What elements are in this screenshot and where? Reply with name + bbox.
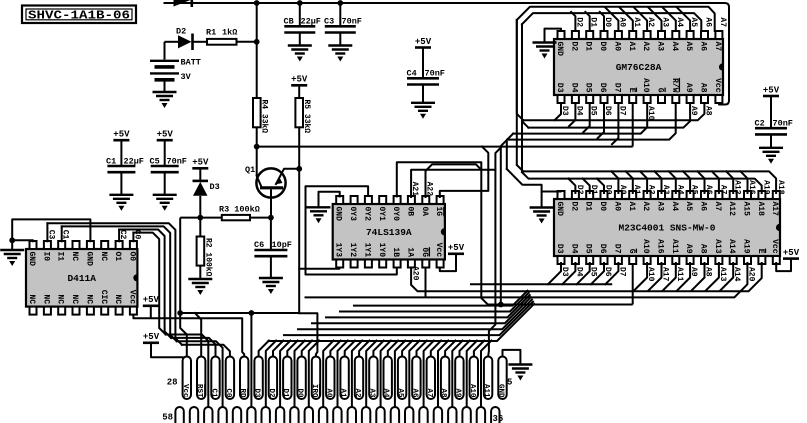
svg-text:NC: NC	[99, 252, 108, 262]
wire 139 0Y0 to rom G line	[397, 162, 488, 304]
svg-text:0Y1: 0Y1	[377, 207, 386, 222]
svg-text:NC: NC	[41, 294, 50, 304]
svg-text:R/W: R/W	[670, 78, 679, 93]
svg-text:A9: A9	[453, 388, 461, 398]
svg-text:A19: A19	[761, 180, 770, 195]
svg-text:A2: A2	[353, 388, 361, 398]
svg-text:+5V: +5V	[448, 243, 465, 253]
wire trunk vertical from A10 line	[507, 134, 513, 169]
node R4-base junction	[254, 144, 260, 150]
svg-text:A3: A3	[656, 202, 665, 212]
svg-text:+5V: +5V	[415, 37, 432, 47]
svg-text:D6: D6	[598, 83, 607, 93]
svg-text:3V: 3V	[181, 72, 192, 82]
wire rom data bus line	[470, 283, 612, 285]
svg-text:A18: A18	[776, 180, 785, 195]
svg-text:A9: A9	[684, 244, 693, 254]
svg-text:0G: 0G	[420, 247, 429, 257]
svg-text:0B: 0B	[405, 207, 414, 217]
svg-text:E: E	[756, 249, 765, 254]
svg-text:A8: A8	[699, 83, 708, 93]
svg-text:A8: A8	[699, 244, 708, 254]
svg-text:A10: A10	[641, 239, 650, 254]
svg-text:28: 28	[167, 378, 178, 388]
svg-text:C6: C6	[254, 240, 264, 250]
wire reset line to IRQ pad	[299, 313, 317, 356]
svg-text:D3: D3	[555, 244, 564, 254]
svg-text:A18: A18	[756, 202, 765, 217]
ground rom GND pin	[542, 191, 561, 208]
svg-text:IRQ: IRQ	[310, 384, 318, 398]
svg-text:R1: R1	[206, 28, 216, 38]
svg-text:NC: NC	[70, 252, 79, 262]
ground C1	[109, 194, 133, 196]
wire 139 0A input A22	[426, 164, 482, 197]
svg-text:A9: A9	[684, 83, 693, 93]
svg-text:D3: D3	[210, 182, 220, 192]
ground C2	[759, 147, 783, 149]
wire rom G enable riser	[632, 264, 634, 305]
wire sram left bus vertical A7	[517, 20, 524, 120]
svg-text:M23C4001 SNS-MW-0: M23C4001 SNS-MW-0	[619, 223, 716, 234]
wire cic data lines to connector	[46, 223, 48, 241]
svg-text:0Y3: 0Y3	[348, 207, 357, 222]
svg-text:D6: D6	[598, 244, 607, 254]
svg-text:1Y3: 1Y3	[334, 243, 343, 258]
svg-text:D4: D4	[569, 244, 578, 254]
wire cic GND2 to rail	[12, 219, 90, 241]
svg-text:Vcc: Vcc	[434, 243, 443, 258]
wire connector bus fan	[259, 341, 269, 357]
node R1-battery junction	[254, 39, 260, 45]
svg-text:NC: NC	[27, 294, 36, 304]
svg-text:A3: A3	[367, 388, 375, 398]
svg-text:A0: A0	[612, 42, 621, 52]
title box SHVC-1A1B-06	[22, 6, 136, 24]
svg-text:0A: 0A	[420, 207, 429, 217]
svg-text:+5V: +5V	[291, 75, 308, 85]
battery BATT 3V	[164, 42, 166, 60]
wire rom data pins D3-D7 bevels	[548, 263, 561, 284]
svg-text:R3 100kΩ: R3 100kΩ	[219, 205, 260, 215]
svg-text:R5 33kΩ: R5 33kΩ	[302, 100, 311, 134]
rom U2 M23C4001 SNS-MW-0	[554, 199, 780, 256]
svg-text:A13: A13	[713, 239, 722, 254]
svg-text:D1: D1	[584, 202, 593, 212]
svg-text:RD: RD	[238, 388, 246, 398]
svg-text:D1: D1	[281, 388, 289, 398]
svg-text:GND: GND	[555, 202, 564, 217]
svg-text:A10: A10	[468, 384, 476, 398]
svg-text:A11: A11	[670, 239, 679, 254]
wire sram A7 track	[517, 7, 715, 31]
connector edge bottom row	[175, 407, 183, 423]
svg-text:36: 36	[493, 414, 504, 423]
svg-text:G: G	[656, 88, 665, 93]
svg-text:A0: A0	[324, 388, 332, 398]
svg-text:1G: 1G	[434, 207, 443, 217]
svg-text:A2: A2	[641, 42, 650, 52]
wire sram bus line A10	[513, 103, 647, 134]
svg-text:A5: A5	[684, 202, 693, 212]
svg-text:NC: NC	[84, 294, 93, 304]
svg-text:A1: A1	[339, 388, 347, 398]
svg-text:GND: GND	[497, 384, 505, 398]
svg-text:NC: NC	[70, 294, 79, 304]
svg-text:D0: D0	[598, 202, 607, 212]
svg-text:RST: RST	[195, 384, 203, 398]
wire sram bus line R/W	[507, 103, 675, 140]
svg-text:A7: A7	[713, 202, 722, 212]
connector edge top row	[183, 357, 191, 400]
svg-text:GND: GND	[84, 252, 93, 267]
svg-text:1Y0: 1Y0	[377, 243, 386, 258]
svg-text:D7: D7	[612, 83, 621, 93]
ground C6	[259, 277, 283, 279]
svg-text:A19: A19	[742, 239, 751, 254]
svg-text:D0: D0	[296, 388, 304, 398]
node reset line junction	[177, 310, 183, 316]
svg-text:1Y2: 1Y2	[348, 243, 357, 258]
svg-text:G: G	[627, 249, 636, 254]
cic U4 D411A	[26, 249, 137, 307]
node R5-collector junction	[296, 166, 302, 172]
wire rom top track 3 stub	[507, 169, 542, 192]
node R3-C6 junction	[268, 215, 274, 221]
wire sram left bus vertical A6	[522, 24, 528, 127]
svg-text:D5: D5	[584, 83, 593, 93]
svg-text:NC: NC	[56, 294, 65, 304]
wire 139 0B input A21	[411, 170, 495, 197]
svg-text:D4: D4	[569, 83, 578, 93]
ground C3	[328, 44, 352, 46]
svg-text:C0: C0	[224, 388, 232, 398]
svg-text:A4: A4	[670, 202, 679, 212]
svg-text:0Y2: 0Y2	[362, 207, 371, 222]
svg-text:+5V: +5V	[192, 158, 209, 168]
svg-text:O1: O1	[113, 252, 122, 262]
svg-text:+5V: +5V	[143, 332, 160, 342]
svg-text:58: 58	[162, 413, 173, 423]
svg-text:I1: I1	[56, 252, 65, 262]
svg-text:I0: I0	[41, 252, 50, 262]
svg-text:+5V: +5V	[113, 130, 130, 140]
ground sram GND pin	[545, 29, 562, 43]
svg-text:+5V: +5V	[763, 85, 780, 95]
wire sram bus line A8	[523, 103, 704, 120]
svg-text:CIC: CIC	[99, 290, 108, 305]
svg-text:A12: A12	[727, 202, 736, 217]
wire 139 0G and A20 net line	[425, 268, 427, 298]
wire sram E enable riser	[632, 103, 634, 147]
svg-text:SHVC-1A1B-06: SHVC-1A1B-06	[28, 9, 130, 23]
svg-text:1B: 1B	[391, 247, 400, 257]
svg-text:A10: A10	[641, 78, 650, 93]
svg-text:A8: A8	[439, 388, 447, 398]
svg-text:Vcc: Vcc	[181, 384, 189, 398]
svg-text:D3: D3	[555, 83, 564, 93]
svg-text:R4 33kΩ: R4 33kΩ	[260, 100, 269, 134]
svg-text:A1: A1	[627, 42, 636, 52]
svg-text:GND: GND	[27, 252, 36, 267]
svg-text:O0: O0	[127, 252, 136, 262]
wire rom G bus line	[488, 304, 633, 306]
wire sram bus line A9	[528, 103, 690, 128]
svg-text:Vcc: Vcc	[713, 78, 722, 93]
svg-text:A2: A2	[641, 202, 650, 212]
svg-text:Vcc: Vcc	[127, 290, 136, 305]
svg-text:+5V: +5V	[143, 295, 160, 305]
wire battery power rail	[165, 3, 730, 105]
diode D1	[174, 0, 191, 7]
wire Q1 reset line	[257, 146, 633, 148]
svg-text:A7: A7	[718, 17, 727, 27]
wire sram A6 track	[522, 13, 701, 31]
ground connector right	[508, 363, 532, 365]
svg-text:A3: A3	[656, 42, 665, 52]
ground cic GND	[12, 240, 33, 241]
svg-text:A6: A6	[410, 388, 418, 398]
svg-text:D5: D5	[584, 244, 593, 254]
svg-text:D0: D0	[598, 42, 607, 52]
svg-text:GM76C28A: GM76C28A	[616, 62, 662, 73]
svg-text:D3: D3	[253, 388, 261, 398]
svg-text:D411A: D411A	[67, 273, 96, 284]
svg-text:C1: C1	[210, 388, 218, 398]
svg-text:NC: NC	[113, 294, 122, 304]
svg-text:A7: A7	[713, 42, 722, 52]
decoder U1 74LS139A	[333, 204, 445, 260]
svg-text:D2: D2	[569, 42, 578, 52]
sram U3 GM76C28A	[554, 39, 723, 95]
svg-text:Q1: Q1	[245, 165, 255, 175]
svg-text:74LS139A: 74LS139A	[366, 227, 412, 238]
wire connector GND pad to ground	[503, 350, 521, 365]
svg-text:A16: A16	[656, 239, 665, 254]
wire Q1 line to A11 pad	[488, 147, 502, 357]
svg-text:A7: A7	[425, 388, 433, 397]
svg-text:10pF: 10pF	[272, 240, 292, 250]
svg-text:A5: A5	[396, 388, 404, 398]
ground battery	[153, 91, 177, 93]
svg-text:R2 100kΩ: R2 100kΩ	[204, 238, 213, 277]
svg-text:A17: A17	[770, 202, 779, 217]
wire 139 1G enable	[440, 147, 489, 197]
ground R2	[188, 278, 212, 280]
svg-text:1kΩ: 1kΩ	[222, 28, 237, 38]
svg-text:GND: GND	[334, 207, 343, 222]
node battery rail junctions	[254, 0, 260, 6]
svg-text:A6: A6	[699, 202, 708, 212]
resistor R4 33k	[256, 3, 258, 98]
svg-text:A4: A4	[670, 42, 679, 52]
ground C5	[153, 194, 177, 196]
svg-text:A5: A5	[684, 42, 693, 52]
ground C8	[288, 44, 312, 46]
resistor R2 100k	[199, 218, 201, 237]
wire reset vertical to Vcc pad	[180, 313, 187, 357]
wire RST pad riser	[195, 313, 201, 357]
svg-text:5: 5	[507, 378, 512, 388]
svg-text:A6: A6	[699, 42, 708, 52]
wire reset node down to connector	[179, 218, 181, 313]
wire rom address pins bevels	[634, 263, 647, 291]
svg-text:A14: A14	[727, 239, 736, 254]
svg-text:D2: D2	[176, 27, 186, 37]
wire rom top pin bevels	[568, 179, 575, 193]
svg-text:+5V: +5V	[157, 130, 174, 140]
svg-text:D7: D7	[612, 244, 621, 254]
wire collector to 1Y3 and reset line	[180, 169, 299, 313]
svg-text:A1: A1	[627, 202, 636, 212]
wire 139 0Y2 to 1B	[306, 186, 397, 274]
ground C4	[411, 102, 435, 104]
node D3-R3 junction	[197, 215, 203, 221]
svg-text:A6: A6	[704, 17, 713, 27]
svg-text:Vcc: Vcc	[770, 239, 779, 254]
svg-text:1A: 1A	[405, 247, 414, 257]
svg-text:E: E	[627, 88, 636, 93]
svg-text:+5V: +5V	[783, 248, 800, 258]
wire rom top address track 1	[516, 20, 518, 165]
svg-text:A11: A11	[482, 384, 490, 398]
svg-text:0Y0: 0Y0	[391, 207, 400, 222]
svg-text:A4: A4	[382, 388, 390, 398]
wire rom top address track 2	[521, 24, 523, 172]
svg-text:D1: D1	[584, 42, 593, 52]
wire sram data pins up-bevels	[571, 12, 575, 31]
svg-text:D2: D2	[569, 202, 578, 212]
svg-text:D2: D2	[267, 388, 275, 398]
svg-text:1Y1: 1Y1	[362, 243, 371, 258]
svg-text:A15: A15	[742, 202, 751, 217]
ground 139 GND pin	[319, 192, 340, 208]
svg-text:A0: A0	[612, 202, 621, 212]
wire trunk vertical from R/W line	[501, 140, 508, 305]
svg-text:BATT: BATT	[181, 58, 201, 68]
wire bottom row feed	[249, 310, 255, 316]
node rom G junction	[498, 302, 504, 308]
wire sram data pins D3-D7 bevels	[555, 103, 561, 120]
